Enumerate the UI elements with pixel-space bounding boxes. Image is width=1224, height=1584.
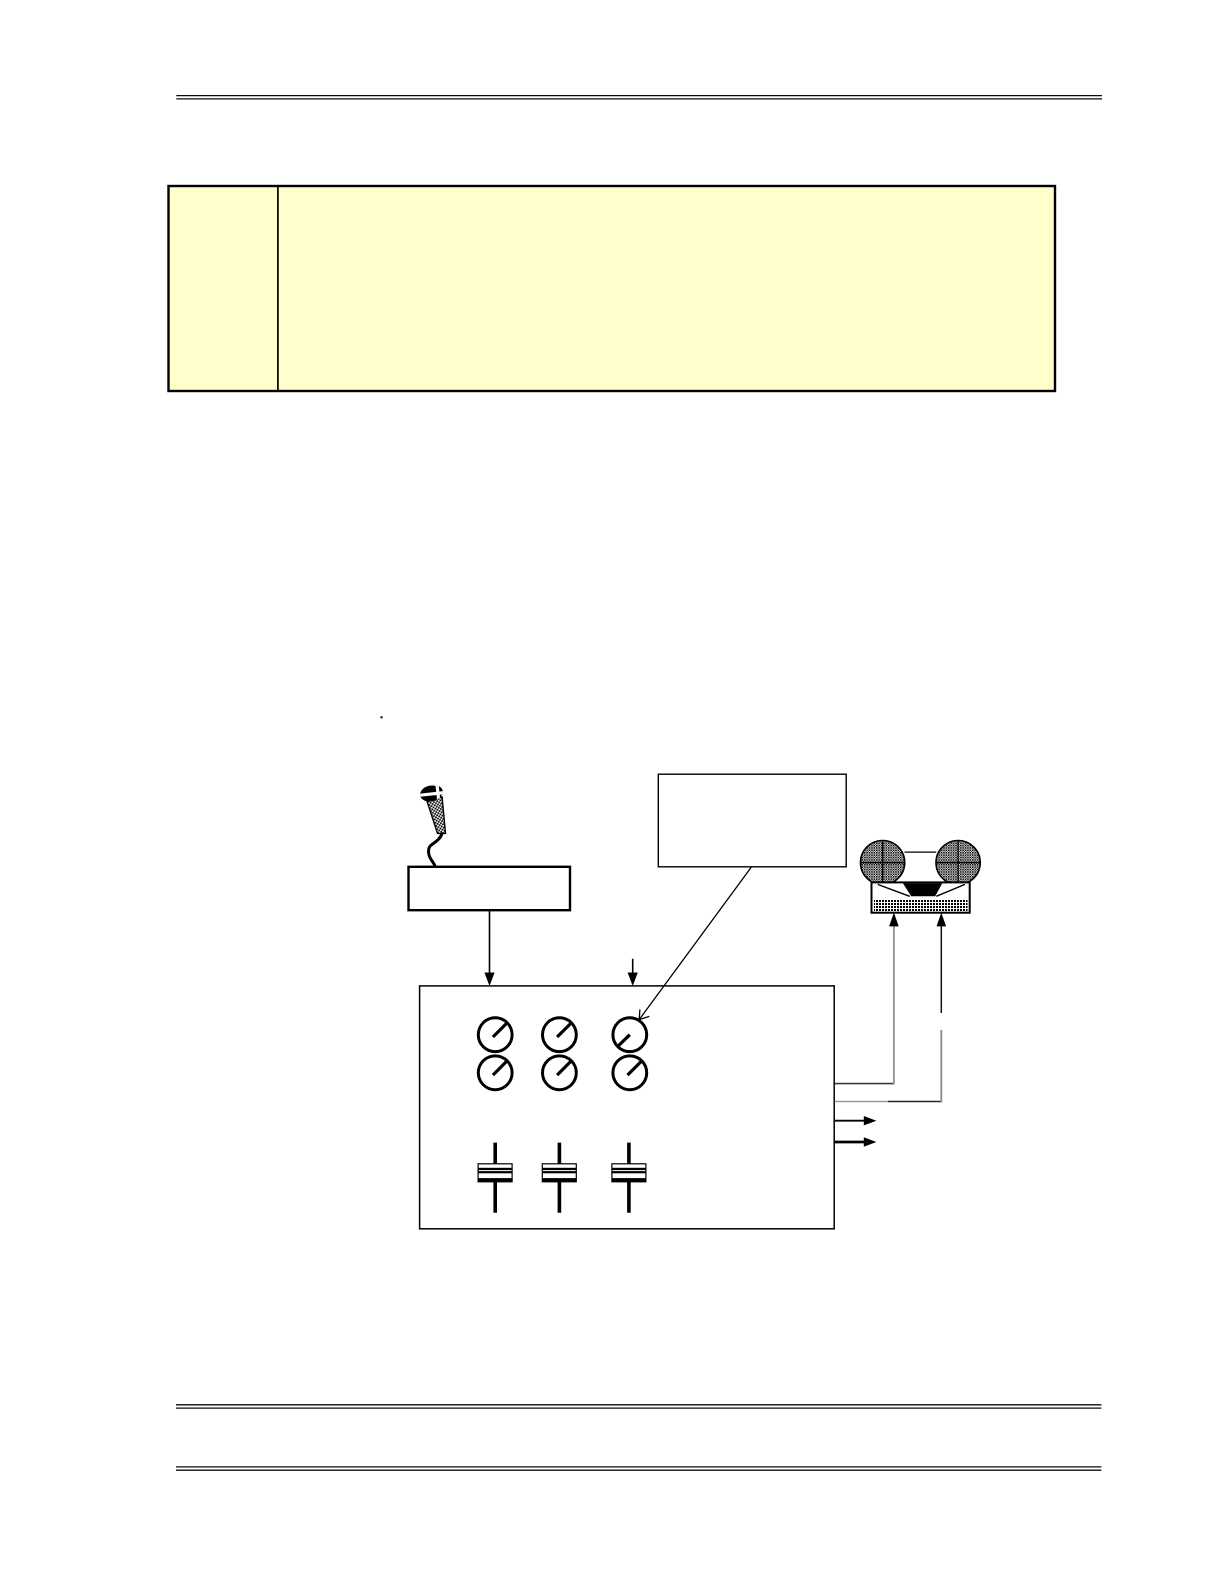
tape between reels — [905, 851, 937, 853]
knob row2 col3 — [613, 1056, 647, 1090]
checkered front strip — [874, 900, 968, 912]
table cell divider — [277, 186, 279, 391]
fader 2 — [542, 1143, 576, 1213]
fader 1 — [478, 1143, 512, 1213]
knob row1 col2 — [543, 1018, 577, 1052]
wire: mixer to tape recorder (left) — [835, 913, 899, 1085]
tape recorder — [861, 841, 981, 913]
tape path lines — [878, 884, 910, 896]
left reel — [861, 841, 905, 885]
footer double rule 1 — [176, 1405, 1101, 1408]
microphone body (tapered, checkered) — [427, 797, 446, 834]
knob row2 col2 — [543, 1056, 577, 1090]
arrow: short input into mixer — [628, 959, 638, 986]
stray period dot — [380, 716, 383, 719]
knob row1 col1 — [478, 1018, 512, 1052]
mixer box — [420, 986, 835, 1229]
footer double rule 2 — [176, 1467, 1101, 1470]
yellow note table — [169, 186, 1056, 391]
arrow: mixer output 1 — [835, 1116, 877, 1125]
microphone head — [418, 783, 444, 804]
arrow: label box to knob (open head) — [639, 867, 751, 1020]
microphone — [418, 782, 446, 867]
fader 3 — [612, 1143, 646, 1213]
head block (black trapezoid) — [903, 883, 942, 896]
knob row2 col1 — [478, 1056, 512, 1090]
microphone cord — [429, 834, 442, 867]
wire: mixer to tape recorder (right) — [835, 913, 946, 1103]
knob row1 col3 — [613, 1018, 647, 1052]
arrow: source box to mixer — [484, 910, 494, 986]
arrow: mixer output 2 — [835, 1137, 877, 1146]
header double rule — [176, 96, 1102, 99]
recorder body — [872, 882, 970, 912]
source box (bottom-left rectangle) — [409, 867, 571, 910]
label box (top-center rectangle) — [658, 774, 846, 867]
right reel — [936, 841, 980, 885]
